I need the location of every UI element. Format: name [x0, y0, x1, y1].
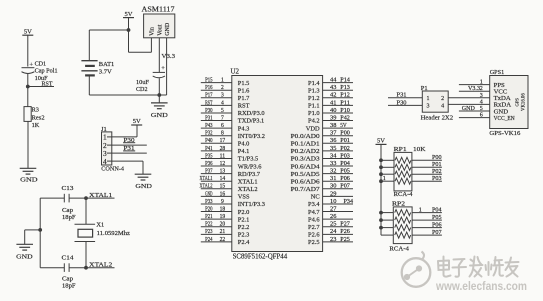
- wire pin4 to GND: [112, 160, 143, 162]
- svg-text:Vin: Vin: [150, 27, 156, 36]
- svg-text:C14: C14: [62, 254, 75, 261]
- pin 24 P2.6 (right): [323, 233, 353, 235]
- svg-text:GPS-VK16: GPS-VK16: [489, 130, 521, 137]
- svg-text:P2.1: P2.1: [238, 216, 250, 223]
- svg-text:P07: P07: [432, 230, 442, 236]
- svg-text:P16: P16: [205, 85, 212, 91]
- svg-text:1: 1: [221, 78, 224, 84]
- wire: [27, 35, 29, 66]
- svg-text:P2.4: P2.4: [238, 239, 250, 246]
- pin 17 P4.0 (left): [201, 142, 232, 144]
- svg-text:VK16.06: VK16.06: [522, 93, 527, 111]
- watermark logo: [402, 258, 431, 287]
- pin 16 VSS (left): [201, 195, 232, 197]
- svg-text:10K: 10K: [413, 146, 426, 153]
- pin 18 P2.0 (left): [201, 211, 232, 213]
- svg-text:CD2: CD2: [136, 86, 148, 93]
- svg-text:P4.3: P4.3: [238, 125, 250, 132]
- svg-text:33: 33: [330, 161, 336, 167]
- wire 5V rail: [380, 144, 382, 235]
- svg-text:5V: 5V: [125, 11, 133, 18]
- svg-text:36: 36: [330, 138, 336, 144]
- svg-text:10: 10: [330, 199, 336, 205]
- ground: [135, 173, 152, 175]
- svg-text:V3.3: V3.3: [162, 53, 176, 60]
- resistor R3: [24, 107, 31, 122]
- svg-text:P15: P15: [205, 78, 212, 84]
- svg-text:7: 7: [221, 115, 224, 121]
- svg-text:P0.5/AD5: P0.5/AD5: [291, 171, 320, 178]
- svg-text:P32: P32: [205, 131, 212, 137]
- svg-text:CD1: CD1: [35, 60, 47, 67]
- watermark chinese strokes: [438, 257, 519, 277]
- svg-text:41: 41: [330, 100, 336, 106]
- node: [127, 28, 131, 32]
- svg-text:P06: P06: [340, 176, 350, 182]
- svg-text:P35: P35: [205, 153, 212, 159]
- svg-text:P4.7: P4.7: [308, 209, 320, 216]
- svg-text:5V: 5V: [133, 118, 141, 125]
- svg-text:X1: X1: [96, 221, 104, 228]
- pin 1 stub: [107, 136, 112, 138]
- svg-text:P23: P23: [205, 229, 212, 235]
- svg-text:4: 4: [480, 99, 483, 105]
- pin 33 P0.6/AD4 (right): [323, 165, 353, 167]
- svg-text:R3: R3: [32, 107, 39, 114]
- pin 2 VCC: [459, 90, 490, 92]
- svg-text:RCA-4: RCA-4: [394, 191, 414, 198]
- svg-text:VCC_EN: VCC_EN: [494, 115, 515, 122]
- wire: [27, 74, 29, 87]
- svg-text:P1.6: P1.6: [238, 87, 250, 94]
- svg-text:35: 35: [330, 146, 336, 152]
- power 5V (regulator): [123, 17, 134, 19]
- wire: [28, 86, 54, 88]
- wire: [27, 87, 29, 107]
- svg-text:42: 42: [330, 93, 336, 99]
- wire pin1 to 5V: [112, 136, 137, 138]
- svg-text:GPS: GPS: [515, 98, 520, 107]
- svg-text:VDD: VDD: [306, 125, 320, 132]
- svg-text:GND: GND: [205, 191, 213, 197]
- svg-text:18pF: 18pF: [62, 283, 76, 290]
- svg-text:INT0/P3.2: INT0/P3.2: [238, 133, 265, 140]
- pin 1 P1.5 (left): [201, 82, 232, 84]
- pin 5 RXD/P3.0 (left): [201, 112, 232, 114]
- svg-text:P2.2: P2.2: [238, 224, 250, 231]
- svg-text:P2.6: P2.6: [308, 232, 320, 239]
- svg-text:CONN-4: CONN-4: [101, 165, 124, 172]
- svg-text:P31: P31: [397, 92, 407, 99]
- svg-text:P37: P37: [205, 169, 212, 175]
- svg-text:2: 2: [480, 86, 483, 92]
- svg-text:1: 1: [427, 96, 430, 102]
- svg-text:P02: P02: [432, 169, 442, 175]
- svg-text:P1.5: P1.5: [238, 80, 250, 87]
- svg-text:P1.3: P1.3: [308, 87, 320, 94]
- wire pin2: [112, 144, 147, 146]
- resistor RP1.2: [381, 166, 394, 168]
- wire P31: [388, 97, 422, 99]
- svg-text:P14: P14: [340, 78, 350, 84]
- svg-text:www.elecfans.com: www.elecfans.com: [435, 279, 527, 293]
- wire to ground: [25, 229, 41, 231]
- pin 20 P2.2 (left): [201, 226, 232, 228]
- svg-text:XTAL1: XTAL1: [200, 176, 213, 182]
- power 5V (top-left): [22, 34, 33, 36]
- pin 36 P0.1/AD1 (right): [323, 142, 353, 144]
- pin 37 P0.0/AD0 (right): [323, 135, 353, 137]
- svg-text:P0.0/AD0: P0.0/AD0: [291, 133, 320, 140]
- svg-text:Cap: Cap: [62, 276, 73, 283]
- svg-text:8: 8: [221, 131, 224, 137]
- wire GND rail: [89, 94, 166, 96]
- svg-text:GND: GND: [462, 105, 476, 112]
- svg-text:T1/P3.5: T1/P3.5: [238, 156, 258, 163]
- wire left rail: [39, 198, 41, 268]
- pin 25 P2.7 (right): [323, 226, 353, 228]
- wire: [89, 29, 128, 31]
- pin 2 stub: [107, 144, 112, 146]
- svg-text:RP1: RP1: [394, 146, 407, 153]
- pin 29 NC (right): [323, 195, 353, 197]
- svg-text:P31: P31: [205, 115, 212, 121]
- pin 26 P4.6 (right): [323, 218, 353, 220]
- svg-text:2: 2: [441, 96, 444, 102]
- svg-text:+: +: [161, 65, 165, 72]
- svg-text:25: 25: [330, 222, 336, 228]
- resistor RP2.2: [381, 219, 393, 221]
- svg-text:1K: 1K: [32, 122, 40, 129]
- svg-text:3.7V: 3.7V: [99, 69, 112, 76]
- svg-text:Cap Pol1: Cap Pol1: [35, 68, 58, 75]
- resistor RP2.4: [381, 234, 393, 236]
- svg-text:23: 23: [330, 237, 336, 243]
- svg-text:P0.6/AD4: P0.6/AD4: [291, 163, 321, 170]
- svg-text:5V: 5V: [24, 28, 32, 35]
- pin 40 P1.0 (right): [323, 112, 353, 114]
- svg-text:P0.6/AD6: P0.6/AD6: [291, 178, 320, 185]
- svg-text:27: 27: [330, 206, 336, 212]
- svg-text:P00: P00: [340, 131, 350, 137]
- wire P30: [388, 104, 422, 106]
- svg-text:P17: P17: [205, 93, 212, 99]
- svg-text:GPS1: GPS1: [490, 69, 505, 76]
- svg-text:31: 31: [330, 176, 336, 182]
- resistor RP1.1: [381, 159, 394, 161]
- svg-text:18: 18: [220, 206, 226, 212]
- pin 6 VCC_EN: [459, 117, 490, 119]
- svg-text:P41: P41: [205, 146, 212, 152]
- svg-text:P03: P03: [432, 176, 442, 182]
- svg-text:P07: P07: [340, 184, 350, 190]
- svg-text:NC: NC: [311, 194, 320, 201]
- pin 15 XTAL2 (left): [201, 188, 232, 190]
- pin 19 P2.1 (left): [201, 218, 232, 220]
- svg-text:1: 1: [480, 80, 483, 86]
- ground: [20, 167, 37, 169]
- wire: [128, 18, 130, 30]
- svg-text:3: 3: [221, 93, 224, 99]
- svg-text:P2.5: P2.5: [308, 239, 320, 246]
- svg-text:10uF: 10uF: [136, 79, 149, 86]
- svg-text:1: 1: [383, 176, 386, 182]
- pin 5 GND: [459, 110, 490, 112]
- svg-text:P0.1/AD1: P0.1/AD1: [291, 140, 320, 147]
- ground: [16, 243, 33, 245]
- svg-text:Res2: Res2: [32, 114, 45, 121]
- svg-text:5: 5: [221, 108, 224, 114]
- svg-text:13: 13: [220, 169, 226, 175]
- svg-text:P0.7/AD7: P0.7/AD7: [291, 186, 321, 193]
- svg-text:P4.1: P4.1: [238, 148, 250, 155]
- svg-text:RST: RST: [238, 103, 250, 110]
- pin 3 stub: [107, 152, 112, 154]
- pin 11 T1/P3.5 (left): [201, 157, 232, 159]
- svg-text:38: 38: [330, 123, 336, 129]
- svg-text:30: 30: [330, 184, 336, 190]
- svg-text:RXD/P3.0: RXD/P3.0: [238, 110, 265, 117]
- pin 35 P0.2/AD2 (right): [323, 150, 353, 152]
- svg-text:1: 1: [419, 208, 422, 214]
- pin 39 P4.2 (right): [323, 120, 353, 122]
- svg-text:XTAL2: XTAL2: [89, 262, 112, 269]
- svg-text:11.0592Mhz: 11.0592Mhz: [97, 230, 131, 237]
- svg-text:GND: GND: [151, 112, 168, 119]
- node: [84, 196, 88, 200]
- svg-text:3: 3: [480, 93, 483, 99]
- svg-text:P21: P21: [205, 214, 212, 220]
- svg-text:P2.7: P2.7: [308, 224, 320, 231]
- svg-text:Header 2X2: Header 2X2: [421, 114, 454, 121]
- pin 30 P0.7/AD7 (right): [323, 188, 353, 190]
- pin 34 P0.3/AD3 (right): [323, 157, 353, 159]
- svg-text:XTAL1: XTAL1: [89, 192, 112, 199]
- svg-text:Cap: Cap: [62, 207, 73, 214]
- svg-text:22: 22: [220, 237, 226, 243]
- svg-text:11: 11: [220, 153, 226, 159]
- svg-text:P0.3/AD3: P0.3/AD3: [291, 156, 320, 163]
- pin 7 TXD/P3.1 (left): [201, 120, 232, 122]
- svg-text:P20: P20: [205, 206, 212, 212]
- pin 42 P1.2 (right): [323, 97, 353, 99]
- pin 22 P2.4 (left): [201, 241, 232, 243]
- svg-text:P27: P27: [340, 222, 350, 228]
- pin 4 RST (left): [201, 104, 232, 106]
- svg-text:29: 29: [330, 191, 336, 197]
- svg-text:P42: P42: [340, 115, 350, 121]
- pin 9 INT1/P3.3 (left): [201, 203, 232, 205]
- svg-text:P4.2: P4.2: [308, 118, 320, 125]
- svg-text:P00: P00: [432, 155, 442, 161]
- svg-text:19: 19: [220, 214, 226, 220]
- pin 14 XTAL1 (left): [201, 180, 232, 182]
- svg-text:BAT1: BAT1: [99, 61, 115, 68]
- svg-text:26: 26: [330, 214, 336, 220]
- pin 1 PPS: [459, 84, 490, 86]
- svg-text:P10: P10: [340, 108, 350, 114]
- svg-text:4: 4: [441, 104, 444, 110]
- wire XTAL1: [40, 197, 64, 199]
- svg-text:39: 39: [330, 115, 336, 121]
- pin 43 P1.3 (right): [323, 89, 353, 91]
- node: [38, 228, 42, 232]
- svg-text:P03: P03: [340, 153, 350, 159]
- svg-text:15: 15: [220, 184, 226, 190]
- pin 6 P4.3 (left): [201, 127, 232, 129]
- svg-text:P1.0: P1.0: [308, 110, 320, 117]
- svg-text:3: 3: [427, 104, 430, 110]
- svg-text:34: 34: [330, 153, 336, 159]
- svg-text:5: 5: [480, 106, 483, 112]
- pin 23 P2.5 (right): [323, 241, 353, 243]
- svg-text:P13: P13: [340, 85, 350, 91]
- svg-text:P06: P06: [432, 222, 442, 228]
- svg-text:9: 9: [221, 199, 224, 205]
- svg-text:C13: C13: [62, 185, 74, 192]
- resistor RP1.3: [381, 173, 394, 175]
- svg-text:P1.1: P1.1: [308, 103, 320, 110]
- svg-text:P25: P25: [340, 237, 350, 243]
- svg-text:P12: P12: [340, 93, 350, 99]
- pin 21 P2.3 (left): [201, 233, 232, 235]
- svg-text:XTAL2: XTAL2: [200, 184, 213, 190]
- svg-text:P43: P43: [205, 123, 212, 129]
- svg-text:RCA-4: RCA-4: [389, 245, 409, 252]
- svg-text:18pF: 18pF: [62, 214, 76, 221]
- svg-text:P4.0: P4.0: [238, 140, 250, 147]
- ground: [158, 95, 160, 103]
- svg-text:44: 44: [330, 78, 336, 84]
- svg-text:P30: P30: [397, 99, 407, 106]
- svg-text:16: 16: [220, 191, 226, 197]
- svg-text:P26: P26: [340, 229, 350, 235]
- pin 10 P3.4 (right): [323, 203, 353, 205]
- svg-text:P01: P01: [432, 162, 442, 168]
- pin 4 stub: [107, 160, 112, 162]
- pin 2 P1.6 (left): [201, 89, 232, 91]
- pin 12 WR/P3.6 (left): [201, 165, 232, 167]
- svg-text:P3.4: P3.4: [308, 201, 320, 208]
- pin 8 INT0/P3.2 (left): [201, 135, 232, 137]
- svg-text:28: 28: [220, 146, 226, 152]
- svg-text:32: 32: [330, 169, 336, 175]
- svg-text:GND: GND: [135, 183, 152, 190]
- resistor RP2.3: [381, 227, 393, 229]
- svg-text:RST: RST: [205, 100, 213, 106]
- svg-text:VSS: VSS: [238, 194, 250, 201]
- pin 41 P1.1 (right): [323, 104, 353, 106]
- svg-text:P01: P01: [340, 138, 350, 144]
- svg-text:P34: P34: [344, 199, 354, 205]
- svg-text:P1.7: P1.7: [238, 95, 250, 102]
- svg-text:P2.3: P2.3: [238, 232, 250, 239]
- svg-text:P4.6: P4.6: [308, 216, 320, 223]
- svg-text:40: 40: [330, 108, 336, 114]
- node: [26, 85, 30, 89]
- svg-text:P05: P05: [432, 215, 442, 221]
- svg-text:6: 6: [480, 113, 483, 119]
- svg-text:GND: GND: [16, 254, 33, 261]
- svg-text:P2.0: P2.0: [238, 209, 250, 216]
- svg-text:U2: U2: [231, 68, 240, 76]
- svg-text:P0.2/AD2: P0.2/AD2: [291, 148, 320, 155]
- wire RxDA: [448, 103, 490, 105]
- wire: [128, 30, 130, 52]
- svg-text:P05: P05: [340, 169, 350, 175]
- pin 32 P0.5/AD5 (right): [323, 173, 353, 175]
- svg-text:V3.3: V3.3: [468, 85, 480, 92]
- pin 28 P4.1 (left): [201, 150, 232, 152]
- wire pin3: [112, 152, 147, 154]
- pin 44 P1.4 (right): [323, 82, 353, 84]
- svg-text:P02: P02: [340, 146, 350, 152]
- svg-text:SC89F5162-QFP44: SC89F5162-QFP44: [233, 252, 288, 260]
- svg-text:Vout: Vout: [158, 24, 164, 36]
- svg-text:12: 12: [220, 161, 226, 167]
- svg-text:P1.2: P1.2: [308, 95, 320, 102]
- svg-text:14: 14: [220, 176, 226, 182]
- crystal X1: [85, 198, 87, 224]
- svg-text:P30: P30: [205, 108, 212, 114]
- resistor RP2.1: [381, 212, 393, 214]
- node: [84, 266, 88, 270]
- svg-text:P04: P04: [340, 161, 350, 167]
- svg-text:P22: P22: [205, 222, 212, 228]
- svg-text:TXD/P3.1: TXD/P3.1: [238, 118, 264, 125]
- svg-text:P1.4: P1.4: [308, 80, 320, 87]
- svg-text:WR/P3.6: WR/P3.6: [238, 163, 262, 170]
- resistor RP1.4: [381, 180, 394, 182]
- svg-text:4: 4: [221, 100, 224, 106]
- svg-text:17: 17: [220, 138, 226, 144]
- svg-text:2: 2: [221, 85, 224, 91]
- svg-text:5V: 5V: [340, 123, 347, 129]
- svg-text:RD/P3.7: RD/P3.7: [238, 171, 261, 178]
- svg-text:P04: P04: [432, 207, 442, 213]
- svg-text:21: 21: [220, 229, 226, 235]
- svg-text:20: 20: [220, 222, 226, 228]
- svg-text:6: 6: [221, 123, 224, 129]
- wire XTAL2: [40, 267, 64, 269]
- power 5V (pullups): [376, 143, 387, 145]
- pin 38 VDD (right): [323, 127, 353, 129]
- power 5V (J1): [131, 124, 142, 126]
- svg-text:43: 43: [330, 85, 336, 91]
- svg-text:24: 24: [330, 229, 336, 235]
- svg-text:GND: GND: [20, 177, 38, 184]
- pin 27 P4.7 (right): [323, 211, 353, 213]
- node: [157, 93, 161, 97]
- svg-text:XTAL1: XTAL1: [238, 178, 258, 185]
- pin 31 P0.6/AD6 (right): [323, 180, 353, 182]
- svg-text:37: 37: [330, 131, 336, 137]
- svg-text:P33: P33: [205, 199, 212, 205]
- wire: [27, 121, 29, 168]
- svg-text:P11: P11: [340, 100, 350, 106]
- svg-text:5V: 5V: [377, 138, 385, 145]
- pin 3 P1.7 (left): [201, 97, 232, 99]
- svg-text:P24: P24: [205, 237, 212, 243]
- battery BAT1: [88, 30, 90, 61]
- svg-text:INT1/P3.3: INT1/P3.3: [238, 201, 265, 208]
- svg-text:P36: P36: [205, 161, 212, 167]
- svg-text:GND: GND: [165, 22, 171, 36]
- svg-text:RST: RST: [42, 81, 53, 88]
- svg-text:P40: P40: [205, 138, 212, 144]
- wire Vout: [158, 38, 160, 73]
- svg-text:XTAL2: XTAL2: [238, 186, 258, 193]
